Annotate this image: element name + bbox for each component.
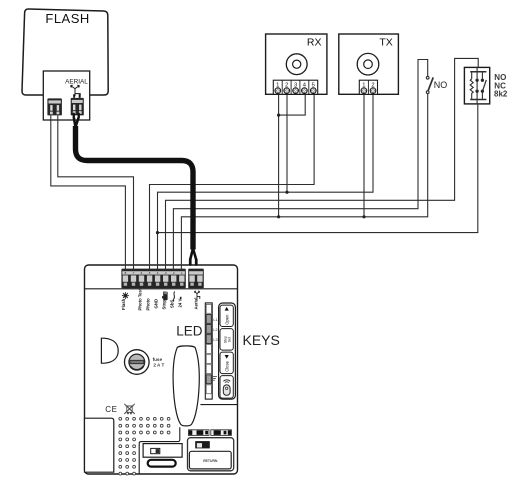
wire board T4 GND to RX pin 2 and TX pin 2 [158,94,374,269]
board terminal strip 8..1 [121,269,185,289]
D-shaped cutout [101,338,118,363]
board antenna icon [194,291,199,299]
wire board T3 Stop to 8k2 box top [166,58,479,269]
svg-text:Set: Set [228,337,232,342]
recessed panel outline right [200,404,237,406]
relay/jumper [195,441,210,448]
board aerial terminal block [188,269,204,289]
connector strip [188,430,231,436]
svg-text:Stop: Stop [162,300,167,310]
photocell receiver RX [266,34,327,94]
svg-text:L2: L2 [213,328,217,332]
svg-text:2 A T: 2 A T [153,363,164,368]
junction node TX1-24V [362,215,365,218]
button Close [220,352,233,374]
svg-text:8k2: 8k2 [494,89,508,98]
wire flash terminal right to board T7 [58,115,134,269]
wire TX pin 1 drop [363,94,365,217]
board shelf line [85,288,238,290]
label KEYS [243,332,280,348]
wire board T5 Photo to RX pin 5 [150,94,315,269]
resistor 8k2 branch [470,72,473,100]
LED labels L1 L2 L3 [213,318,217,342]
svg-text:Close: Close [224,360,229,371]
wire RX pin 1 drop [278,94,280,217]
junction node RX jumper [277,114,280,117]
aerial terminal block (right, in AERIAL box) [71,98,84,116]
bottom-left housing tab [85,418,114,472]
button Open [220,305,233,326]
recessed panel outline left [139,427,180,474]
RX terminal strip pins 1-5 [273,80,317,94]
coax crimp lugs top [73,113,80,119]
label NO (switch) [434,80,448,90]
svg-text:Aerial: Aerial [193,298,198,310]
NC contact branch [476,72,478,100]
aerial junction box AERIAL [43,71,89,120]
button Radio [220,376,233,399]
svg-text:LED: LED [176,324,203,339]
wire GND branch to 8k2 box bottom [158,104,478,233]
svg-text:FLASH: FLASH [45,11,89,26]
svg-text:RX: RX [307,37,322,49]
svg-text:AERIAL: AERIAL [65,78,88,85]
svg-text:KEYS: KEYS [243,332,280,348]
svg-text:fuse: fuse [153,357,163,362]
coax wire tips above aerial terminal block [73,94,80,98]
wire board T2 SbS to switch top [173,60,427,270]
control board body [85,265,238,474]
svg-text:RETURN: RETURN [203,459,218,463]
coax fork feet bottom [189,259,198,266]
fuse F1 [125,350,150,375]
NO contact branch [481,72,486,100]
fuse label 2 A T [153,357,165,368]
radio module box [188,438,234,471]
KEYS panel [219,303,236,399]
button Stop/Set [220,329,233,351]
TX terminal strip pins 1-2 [359,80,377,94]
CE mark [105,405,117,414]
ventilation dot grid [119,417,170,475]
svg-text:L1: L1 [213,318,217,322]
WEEE bin icon [124,404,134,414]
LED indicator strip [205,303,212,399]
svg-text:SbS: SbS [170,300,175,308]
junction node GND-8k2 [156,231,159,234]
svg-text:Open: Open [224,314,229,325]
svg-text:Flash: Flash [121,298,126,310]
safety edge box U1 NO/NC/8k2 [464,67,489,104]
svg-text:NO: NO [434,80,448,90]
svg-text:Photo Test: Photo Test [138,288,143,310]
flash lamp FLASH [22,9,108,95]
photocell transmitter TX [339,34,399,94]
wire flash terminal left to board T8 [51,115,126,269]
slot opening [148,460,176,467]
antenna symbol in AERIAL box [71,85,81,97]
terminal labels (rotated) [121,288,198,310]
buzzer box [143,444,182,458]
svg-text:Photo: Photo [146,298,151,311]
module label box [189,451,231,469]
wire RX jumper pin 4 to pin 1 [279,94,306,115]
wire board T1 24V to switch bottom, RX1, TX1 [181,94,427,270]
svg-text:CE: CE [105,405,117,414]
8k2 box top bus bar [470,67,486,71]
sbs wave icon [173,292,174,302]
capsule cover lever [173,346,199,426]
stop hand icon [162,291,168,300]
radio LED icon [213,377,217,381]
8k2 box bottom bus bar [470,100,486,104]
svg-text:GND: GND [154,299,159,309]
RX lens [286,54,307,75]
wire RX pin 2 drop [286,94,288,192]
flash terminal block (left, in AERIAL box) [47,98,62,115]
svg-text:TX: TX [379,37,392,49]
svg-text:24 V: 24 V [178,299,183,308]
junction node RX2-GND [285,191,288,194]
coax cable aerial [74,118,196,260]
junction node RX1-24V [277,215,280,218]
24V mark [180,297,182,299]
label LED [176,324,203,339]
TX lens [357,53,379,75]
switch S1 NO [426,76,433,93]
labels NO NC 8k2 [494,73,508,98]
svg-text:L3: L3 [213,338,217,342]
flash sun icon [122,292,129,299]
